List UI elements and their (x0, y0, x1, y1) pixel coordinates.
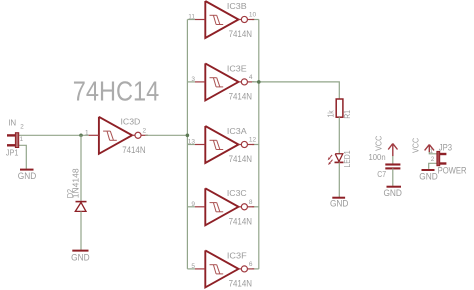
VCC supply symbol above C7 (373, 136, 397, 157)
ground below JP3 (419, 170, 438, 181)
svg-text:6: 6 (249, 261, 253, 268)
svg-text:VCC: VCC (373, 136, 383, 151)
ground below D2 (71, 251, 90, 263)
svg-text:7414N: 7414N (229, 216, 252, 226)
wire: LED1 to GND (338, 162, 340, 197)
op-amp IC3A (74HC14 Schmitt inverter) (188, 126, 257, 164)
net wire: input bus vertical (186, 20, 188, 269)
wire: C7 to GND (392, 168, 394, 186)
wire: IC3F output to output bus (252, 268, 259, 270)
wire: input bus stub to IC3C (187, 206, 195, 208)
svg-text:7414N: 7414N (229, 92, 252, 102)
svg-text:3: 3 (191, 76, 195, 83)
capacitor C7 100n (369, 153, 401, 179)
svg-text:4: 4 (249, 74, 253, 81)
svg-text:2: 2 (143, 127, 147, 134)
svg-text:7414N: 7414N (122, 145, 145, 155)
wire: IC3B output to output bus (252, 19, 259, 21)
wire: input bus stub to IC3E (187, 81, 195, 83)
wire: JP1 pin1 to GND (19, 145, 27, 168)
op-amp IC3B (74HC14 Schmitt inverter) (188, 1, 256, 39)
connector JP1 (6, 118, 24, 157)
wire: R1 to LED1 (338, 117, 340, 154)
junction: output bus at IC3E output (257, 80, 261, 84)
net wire: output bus vertical (258, 20, 260, 269)
wire: net IN down to D2 cathode (80, 135, 82, 201)
svg-text:1k: 1k (325, 110, 335, 118)
ground below JP1 (18, 170, 37, 181)
VCC supply symbol at JP3 (410, 138, 434, 153)
svg-text:LED1: LED1 (342, 150, 352, 168)
op-amp IC3F (74HC14 Schmitt inverter) (191, 250, 254, 288)
junction: D2 branch on net IN (79, 134, 83, 138)
connector JP3 POWER (429, 143, 466, 176)
svg-text:8: 8 (249, 199, 253, 206)
svg-text:IC3A: IC3A (227, 126, 247, 136)
LED LED1 (328, 150, 352, 168)
wire: IC3E output to output bus (252, 81, 259, 83)
wire: IC3D output to input bus (145, 134, 187, 136)
wire: D2 anode to GND (80, 211, 82, 250)
svg-text:GND: GND (71, 252, 90, 262)
svg-text:JP3: JP3 (439, 143, 452, 153)
svg-text:10: 10 (249, 12, 257, 19)
resistor R1 1k (325, 99, 352, 119)
svg-text:IC3D: IC3D (121, 117, 141, 127)
svg-text:POWER: POWER (438, 166, 467, 176)
wire: VCC to C7 (392, 156, 394, 164)
ground below C7 (383, 187, 402, 198)
svg-text:GND: GND (18, 171, 37, 181)
svg-text:IC3E: IC3E (227, 63, 247, 73)
svg-text:IC3F: IC3F (227, 250, 247, 260)
wire: paralleled outputs to R1 (252, 82, 339, 99)
wire: input bus stub to IC3B (187, 19, 195, 21)
svg-text:7414N: 7414N (229, 154, 252, 164)
svg-text:1N4148: 1N4148 (71, 168, 81, 198)
svg-text:GND: GND (383, 188, 402, 198)
svg-text:13: 13 (188, 139, 196, 146)
svg-text:VCC: VCC (410, 138, 420, 153)
ground below LED1 (330, 198, 349, 209)
svg-text:7414N: 7414N (229, 29, 252, 39)
svg-text:74HC14: 74HC14 (73, 76, 159, 107)
svg-text:7414N: 7414N (229, 279, 252, 289)
diode D2 1N4148 (65, 168, 87, 211)
wire: input bus stub to IC3F (187, 268, 195, 270)
svg-text:C7: C7 (377, 169, 386, 179)
wire: input bus stub to IC3A (187, 144, 195, 146)
svg-text:1: 1 (20, 136, 24, 143)
svg-text:R1: R1 (342, 110, 352, 119)
svg-text:100n: 100n (369, 153, 386, 162)
svg-text:9: 9 (191, 201, 195, 208)
svg-text:11: 11 (188, 14, 195, 21)
svg-text:2: 2 (20, 124, 24, 131)
wire: VCC to JP3 pin1 (429, 152, 437, 154)
svg-text:5: 5 (191, 263, 195, 270)
wire: IC3C output to output bus (252, 206, 259, 208)
op-amp IC3C (74HC14 Schmitt inverter) (191, 188, 254, 226)
svg-text:IN: IN (8, 118, 16, 127)
wire: JP3 pin2 to GND (429, 163, 437, 169)
svg-text:IC3C: IC3C (227, 188, 247, 198)
op-amp IC3E (74HC14 Schmitt inverter) (191, 63, 254, 101)
svg-text:12: 12 (249, 137, 257, 144)
junction: IC3D output at input bus (186, 134, 190, 138)
svg-text:1: 1 (429, 148, 433, 155)
wire: JP1 pin2 to IC3D input (net IN) (19, 134, 89, 136)
wire: IC3A output to output bus (252, 144, 259, 146)
svg-text:GND: GND (330, 199, 349, 209)
op-amp IC3D (74HC14 Schmitt inverter) (85, 117, 148, 155)
svg-text:IC3B: IC3B (227, 1, 247, 11)
svg-text:GND: GND (419, 171, 438, 181)
svg-text:2: 2 (431, 156, 435, 163)
svg-text:JP1: JP1 (6, 148, 19, 158)
